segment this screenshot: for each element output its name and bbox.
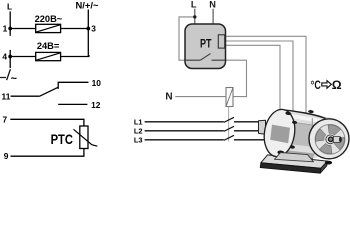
svg-text:9: 9 <box>4 151 9 161</box>
fan sector bottom <box>320 144 333 154</box>
mechanical link coil to contacts <box>228 107 230 142</box>
wire N vertical bus <box>87 10 89 57</box>
svg-text:PT: PT <box>200 38 212 50</box>
motor body top outline <box>280 110 326 119</box>
body lower shade <box>279 150 315 159</box>
svg-text:L: L <box>191 0 197 9</box>
wire N to coil K1 <box>175 96 226 98</box>
wire terminal 11 <box>11 95 39 97</box>
wire node4 to fuse F2 <box>10 56 36 58</box>
wire L3 right segment to motor <box>234 139 266 141</box>
motor base right side face <box>320 161 327 173</box>
motor base top face <box>261 155 328 168</box>
shaft end cap dark <box>339 137 342 142</box>
svg-text:°C: °C <box>311 78 321 92</box>
end cap plate patch <box>270 125 290 144</box>
wire terminal 10 <box>58 82 88 89</box>
svg-text:L1: L1 <box>134 117 143 126</box>
svg-text:N/+/~: N/+/~ <box>76 0 99 10</box>
svg-text:7: 7 <box>3 114 8 124</box>
motor base front face <box>260 163 321 173</box>
motor body bottom outline <box>279 157 313 159</box>
fan cover inner disk <box>315 124 345 154</box>
wire terminal 7 to PTC <box>10 119 84 126</box>
svg-text:Ω: Ω <box>332 78 342 92</box>
motor body cylinder <box>279 110 341 159</box>
connector J1 on PT box <box>218 35 224 48</box>
vent hole top right <box>308 110 314 114</box>
switch arm 11-10 <box>39 87 58 96</box>
svg-text:220B~: 220B~ <box>35 14 63 24</box>
contact K1.3 <box>224 135 234 140</box>
controller PT box <box>185 24 226 69</box>
body highlight band <box>280 112 325 123</box>
coil K1 diagonal <box>226 88 233 107</box>
thermistor PTC diagonal <box>74 129 98 146</box>
arrow symbol <box>322 81 332 89</box>
wire L1 left segment <box>145 121 224 123</box>
contact K1.1 <box>224 117 234 122</box>
svg-text:10: 10 <box>92 78 102 88</box>
thermistor PTC body <box>80 126 88 149</box>
fuse F2 diagonal <box>36 53 60 60</box>
motor shaft stub left <box>259 120 266 134</box>
fuse F2 24V box <box>36 52 61 60</box>
body band top line <box>281 121 323 127</box>
wire L1 right segment to motor <box>234 121 266 123</box>
svg-text:PTC: PTC <box>51 132 74 147</box>
node 3 junction dot <box>86 27 90 31</box>
svg-text:3: 3 <box>91 23 96 33</box>
base shadow under fan <box>325 161 332 165</box>
wire fuse F1 to node 3 <box>61 28 89 30</box>
wire L2 left segment <box>145 130 224 132</box>
label slash of -/~ <box>7 69 11 80</box>
vent hole right-low <box>290 145 296 149</box>
internal relay switch of PT <box>186 54 226 61</box>
wire node1 to fuse F1 <box>10 28 36 30</box>
wire PT output 1 to motor <box>226 36 306 118</box>
svg-text:~: ~ <box>11 73 18 85</box>
wire fuse F2 to N bus <box>61 55 89 57</box>
wire PTC to terminal 9 <box>11 149 84 157</box>
wire terminal 12 <box>58 103 87 105</box>
wire L vertical <box>9 11 11 35</box>
svg-text:4: 4 <box>2 51 7 61</box>
wire PT output 2 to motor <box>226 41 293 113</box>
vent hole bottom <box>277 150 285 155</box>
svg-text:12: 12 <box>91 100 101 110</box>
svg-text:L: L <box>7 1 12 11</box>
wire L branch loop to PT switch <box>179 17 195 60</box>
motor foot hump <box>275 153 314 162</box>
vent hole mid <box>292 121 298 125</box>
vent hole top left <box>285 111 291 115</box>
fan cover circle <box>309 119 349 159</box>
wire L drop to PT <box>194 9 196 25</box>
svg-text:L3: L3 <box>134 135 143 144</box>
wire L2 right segment to motor <box>234 130 266 132</box>
wire L3 left segment <box>145 139 224 141</box>
wire N drop to PT <box>212 9 214 25</box>
contactor coil K1 <box>226 88 233 107</box>
label -/~ polarity <box>0 77 6 79</box>
contact K1.2 <box>224 126 234 131</box>
motor M1 <box>259 107 350 173</box>
fan sector left <box>316 129 326 142</box>
svg-text:L2: L2 <box>134 126 143 135</box>
fuse F1 220V box <box>36 24 61 32</box>
fan sector right <box>334 137 344 150</box>
wire node 4 vertical <box>9 50 11 68</box>
motor hub <box>326 135 335 144</box>
node 1 junction dot <box>8 27 12 31</box>
body stator band <box>280 121 323 148</box>
motor left end cap <box>261 107 298 159</box>
fuse F1 diagonal <box>36 25 60 32</box>
svg-text:11: 11 <box>2 91 11 101</box>
hub center dark <box>329 137 333 141</box>
wire PT output 3 to motor <box>226 45 280 112</box>
svg-text:N: N <box>165 92 172 103</box>
body flange seam <box>311 118 313 130</box>
node L branch junction dot <box>193 15 196 18</box>
svg-text:1: 1 <box>3 23 8 33</box>
node 4 junction dot <box>8 55 12 59</box>
svg-text:N: N <box>209 0 216 9</box>
wire PT relay output to coil K1 <box>226 60 247 96</box>
fan sector top <box>328 125 341 135</box>
motor shaft end <box>333 137 340 143</box>
svg-text:24B=: 24B= <box>37 41 60 51</box>
